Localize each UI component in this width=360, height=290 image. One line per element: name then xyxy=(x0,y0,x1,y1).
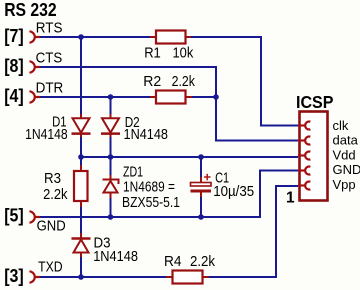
connector pin [8] CTS xyxy=(30,61,41,73)
resistor R3 xyxy=(74,165,88,207)
node Vdd/D1/R3 junction xyxy=(78,154,84,160)
connector ICSP pin clk xyxy=(298,122,310,130)
svg-text:DTR: DTR xyxy=(36,81,64,97)
svg-text:1N4148: 1N4148 xyxy=(124,127,169,143)
node GND/ZD1 junction xyxy=(108,214,114,220)
connector ICSP pin Vdd xyxy=(298,152,310,160)
svg-text:Vdd: Vdd xyxy=(333,147,356,162)
resistor R1 xyxy=(150,31,191,44)
svg-text:[8]: [8] xyxy=(4,56,24,76)
svg-text:ICSP: ICSP xyxy=(296,92,334,112)
svg-text:R2: R2 xyxy=(143,74,161,90)
svg-text:GND: GND xyxy=(37,218,66,234)
svg-text:1N4148: 1N4148 xyxy=(25,127,68,143)
diode D3 xyxy=(72,233,91,257)
wire vertical RTS-D1-R3-D3 column xyxy=(80,37,82,277)
connector pin [3] TXD xyxy=(30,271,41,283)
svg-text:1N4148: 1N4148 xyxy=(93,249,138,265)
zener diode ZD1 xyxy=(103,175,119,198)
node CTS/DTR junction xyxy=(213,94,219,100)
svg-text:[4]: [4] xyxy=(4,86,24,106)
diode D2 xyxy=(101,114,120,137)
svg-text:2.2k: 2.2k xyxy=(43,187,68,203)
node RTS/D1 junction xyxy=(78,34,84,40)
connector pin [4] DTR xyxy=(30,91,41,103)
wire Vdd bus xyxy=(81,156,298,158)
svg-text:1N4689 =: 1N4689 = xyxy=(123,180,175,196)
svg-text:[5]: [5] xyxy=(4,206,24,226)
svg-text:R1: R1 xyxy=(144,46,161,62)
node GND/C1 junction xyxy=(198,214,204,220)
wire DTR horizontal xyxy=(36,97,299,141)
connector ICSP pin GND xyxy=(298,167,310,175)
connector pin [5] GND xyxy=(30,211,41,223)
svg-text:10µ/35: 10µ/35 xyxy=(213,184,254,200)
svg-text:R4: R4 xyxy=(164,254,182,270)
resistor R2 xyxy=(150,91,192,104)
diode D1 xyxy=(72,114,91,137)
node DTR/D2 junction xyxy=(108,94,114,100)
node Vdd/C1 junction xyxy=(198,154,204,160)
node TXD/D3 junction xyxy=(78,274,84,280)
svg-text:1: 1 xyxy=(286,190,295,207)
wire vertical DTR-D2-ZD1 column xyxy=(110,97,112,217)
svg-text:ZD1: ZD1 xyxy=(123,164,143,180)
wire CTS horizontal xyxy=(36,67,217,97)
resistor R4 xyxy=(166,271,209,284)
svg-text:CTS: CTS xyxy=(36,51,63,67)
connector ICSP pin data xyxy=(298,137,310,145)
svg-text:2.2k: 2.2k xyxy=(172,74,196,90)
svg-text:R3: R3 xyxy=(44,171,61,187)
svg-text:clk: clk xyxy=(333,118,349,133)
connector pin [7] RTS xyxy=(30,31,41,43)
connector ICSP pin Vpp xyxy=(298,182,310,190)
svg-text:Vpp: Vpp xyxy=(333,177,356,192)
svg-text:RS 232: RS 232 xyxy=(4,0,57,20)
svg-text:[7]: [7] xyxy=(4,26,24,46)
svg-text:[3]: [3] xyxy=(4,266,24,286)
svg-text:BZX55-5.1: BZX55-5.1 xyxy=(122,195,180,211)
wire TXD horizontal xyxy=(36,186,299,277)
svg-text:RTS: RTS xyxy=(36,21,63,37)
svg-text:GND: GND xyxy=(333,162,360,177)
wire GND bus xyxy=(36,171,299,218)
svg-text:data: data xyxy=(333,133,359,148)
svg-text:TXD: TXD xyxy=(38,260,63,276)
wire vertical C1 column xyxy=(200,157,202,217)
capacitor C1 xyxy=(191,174,212,197)
connector ICSP box xyxy=(300,112,328,201)
node Vdd/ZD1 junction xyxy=(108,154,114,160)
svg-text:10k: 10k xyxy=(173,46,194,62)
wire RTS horizontal xyxy=(36,37,299,126)
svg-text:2.2k: 2.2k xyxy=(190,254,216,270)
